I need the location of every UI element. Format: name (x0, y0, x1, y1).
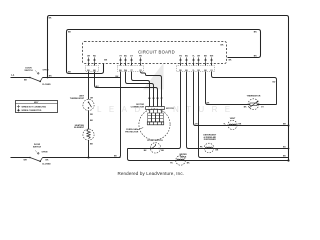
key legend box (16, 101, 58, 113)
svg-text:WH: WH (210, 56, 214, 58)
water valve (170, 153, 190, 165)
svg-text:PROTECTOR: PROTECTOR (125, 131, 139, 133)
svg-text:CIRCUIT BOARD: CIRCUIT BOARD (138, 49, 175, 54)
svg-text:Rendered by LeadVenture, Inc.: Rendered by LeadVenture, Inc. (117, 171, 184, 176)
pin group 1 stems (89, 57, 95, 63)
svg-text:WIRES NOT CONNECTED: WIRES NOT CONNECTED (22, 106, 47, 108)
circuit board outline (67, 30, 261, 74)
wire pin RD to motor connector pin 3 (95, 72, 158, 107)
pin group 3 stems (181, 57, 212, 63)
wire pin OR down to lower right rail (199, 72, 289, 158)
svg-text:WH: WH (24, 160, 28, 162)
wire outer loop (48, 16, 289, 161)
wire pin PK to motor connector pin 4 (141, 72, 162, 107)
wire float switch horizontal (128, 147, 181, 149)
wire lower rail left (11, 157, 121, 159)
wire pin VT long down to bottom rail (119, 72, 121, 158)
svg-text:SWITCH: SWITCH (33, 146, 42, 148)
corner wire labels BK on outer rect and board (49, 18, 258, 74)
motor windings (148, 110, 164, 123)
svg-text:OPEN: OPEN (42, 152, 48, 154)
dashed connector sub-boxes (86, 66, 215, 72)
pin stems through sub-boxes (89, 64, 212, 66)
float switch (144, 139, 165, 153)
svg-text:CONNECTOR: CONNECTOR (131, 107, 145, 109)
svg-text:ELEMENT: ELEMENT (74, 127, 85, 129)
svg-text:OPEN: OPEN (43, 70, 49, 72)
svg-text:DISPENSER: DISPENSER (204, 139, 217, 141)
svg-text:VENT: VENT (230, 118, 236, 120)
svg-text:VALVE: VALVE (180, 156, 187, 159)
svg-text:THERMOSTAT: THERMOSTAT (70, 97, 85, 100)
pin wire-color labels above connector (87, 56, 214, 58)
vent (223, 118, 241, 130)
svg-text:CLOSED: CLOSED (42, 84, 51, 86)
motor (125, 109, 170, 140)
unit thermostat (70, 96, 94, 116)
sub-box pin labels (87, 70, 213, 72)
heating element (74, 120, 94, 145)
wire pin BK down to thermistor (206, 72, 277, 105)
pin group 2 stems (121, 57, 141, 63)
wire pin BU down to dispenser (187, 72, 289, 149)
svg-text:SWITCH: SWITCH (24, 70, 33, 72)
wire pin GY to motor connector pin 1 (132, 72, 150, 107)
watermark wedge (143, 63, 164, 90)
svg-text:WIRES CONNECTED: WIRES CONNECTED (22, 110, 42, 112)
connector pins through dashed line (88, 57, 212, 63)
wire pin BU to motor connector pin 2 (126, 72, 154, 107)
svg-text:THERMISTOR: THERMISTOR (247, 96, 261, 98)
thermistor (244, 96, 265, 110)
right rail wire labels (96, 76, 287, 158)
detergent dispenser (200, 134, 219, 152)
svg-text:KEY: KEY (34, 102, 39, 104)
svg-text:MOTOR: MOTOR (166, 108, 174, 110)
wire float to water valve rail (128, 149, 289, 161)
wire heating element to bottom rail (88, 140, 90, 157)
svg-text:CLOSED: CLOSED (42, 164, 51, 166)
motor connector strip (131, 98, 175, 110)
wire pin to unit thermostat (88, 72, 90, 100)
wire upper door switch to board (11, 77, 121, 79)
wire pin TN down to float switch (180, 72, 182, 147)
lower door switch (24, 144, 52, 166)
dashed board connector region (83, 42, 227, 64)
wire pin YL down to vent (194, 72, 289, 126)
wire pin WH to thermistor return loop (212, 72, 277, 105)
wire unit thermostat to heating element (88, 111, 90, 129)
upper door switch (12, 67, 53, 86)
svg-text:FLOAT SWITCH: FLOAT SWITCH (147, 139, 163, 142)
